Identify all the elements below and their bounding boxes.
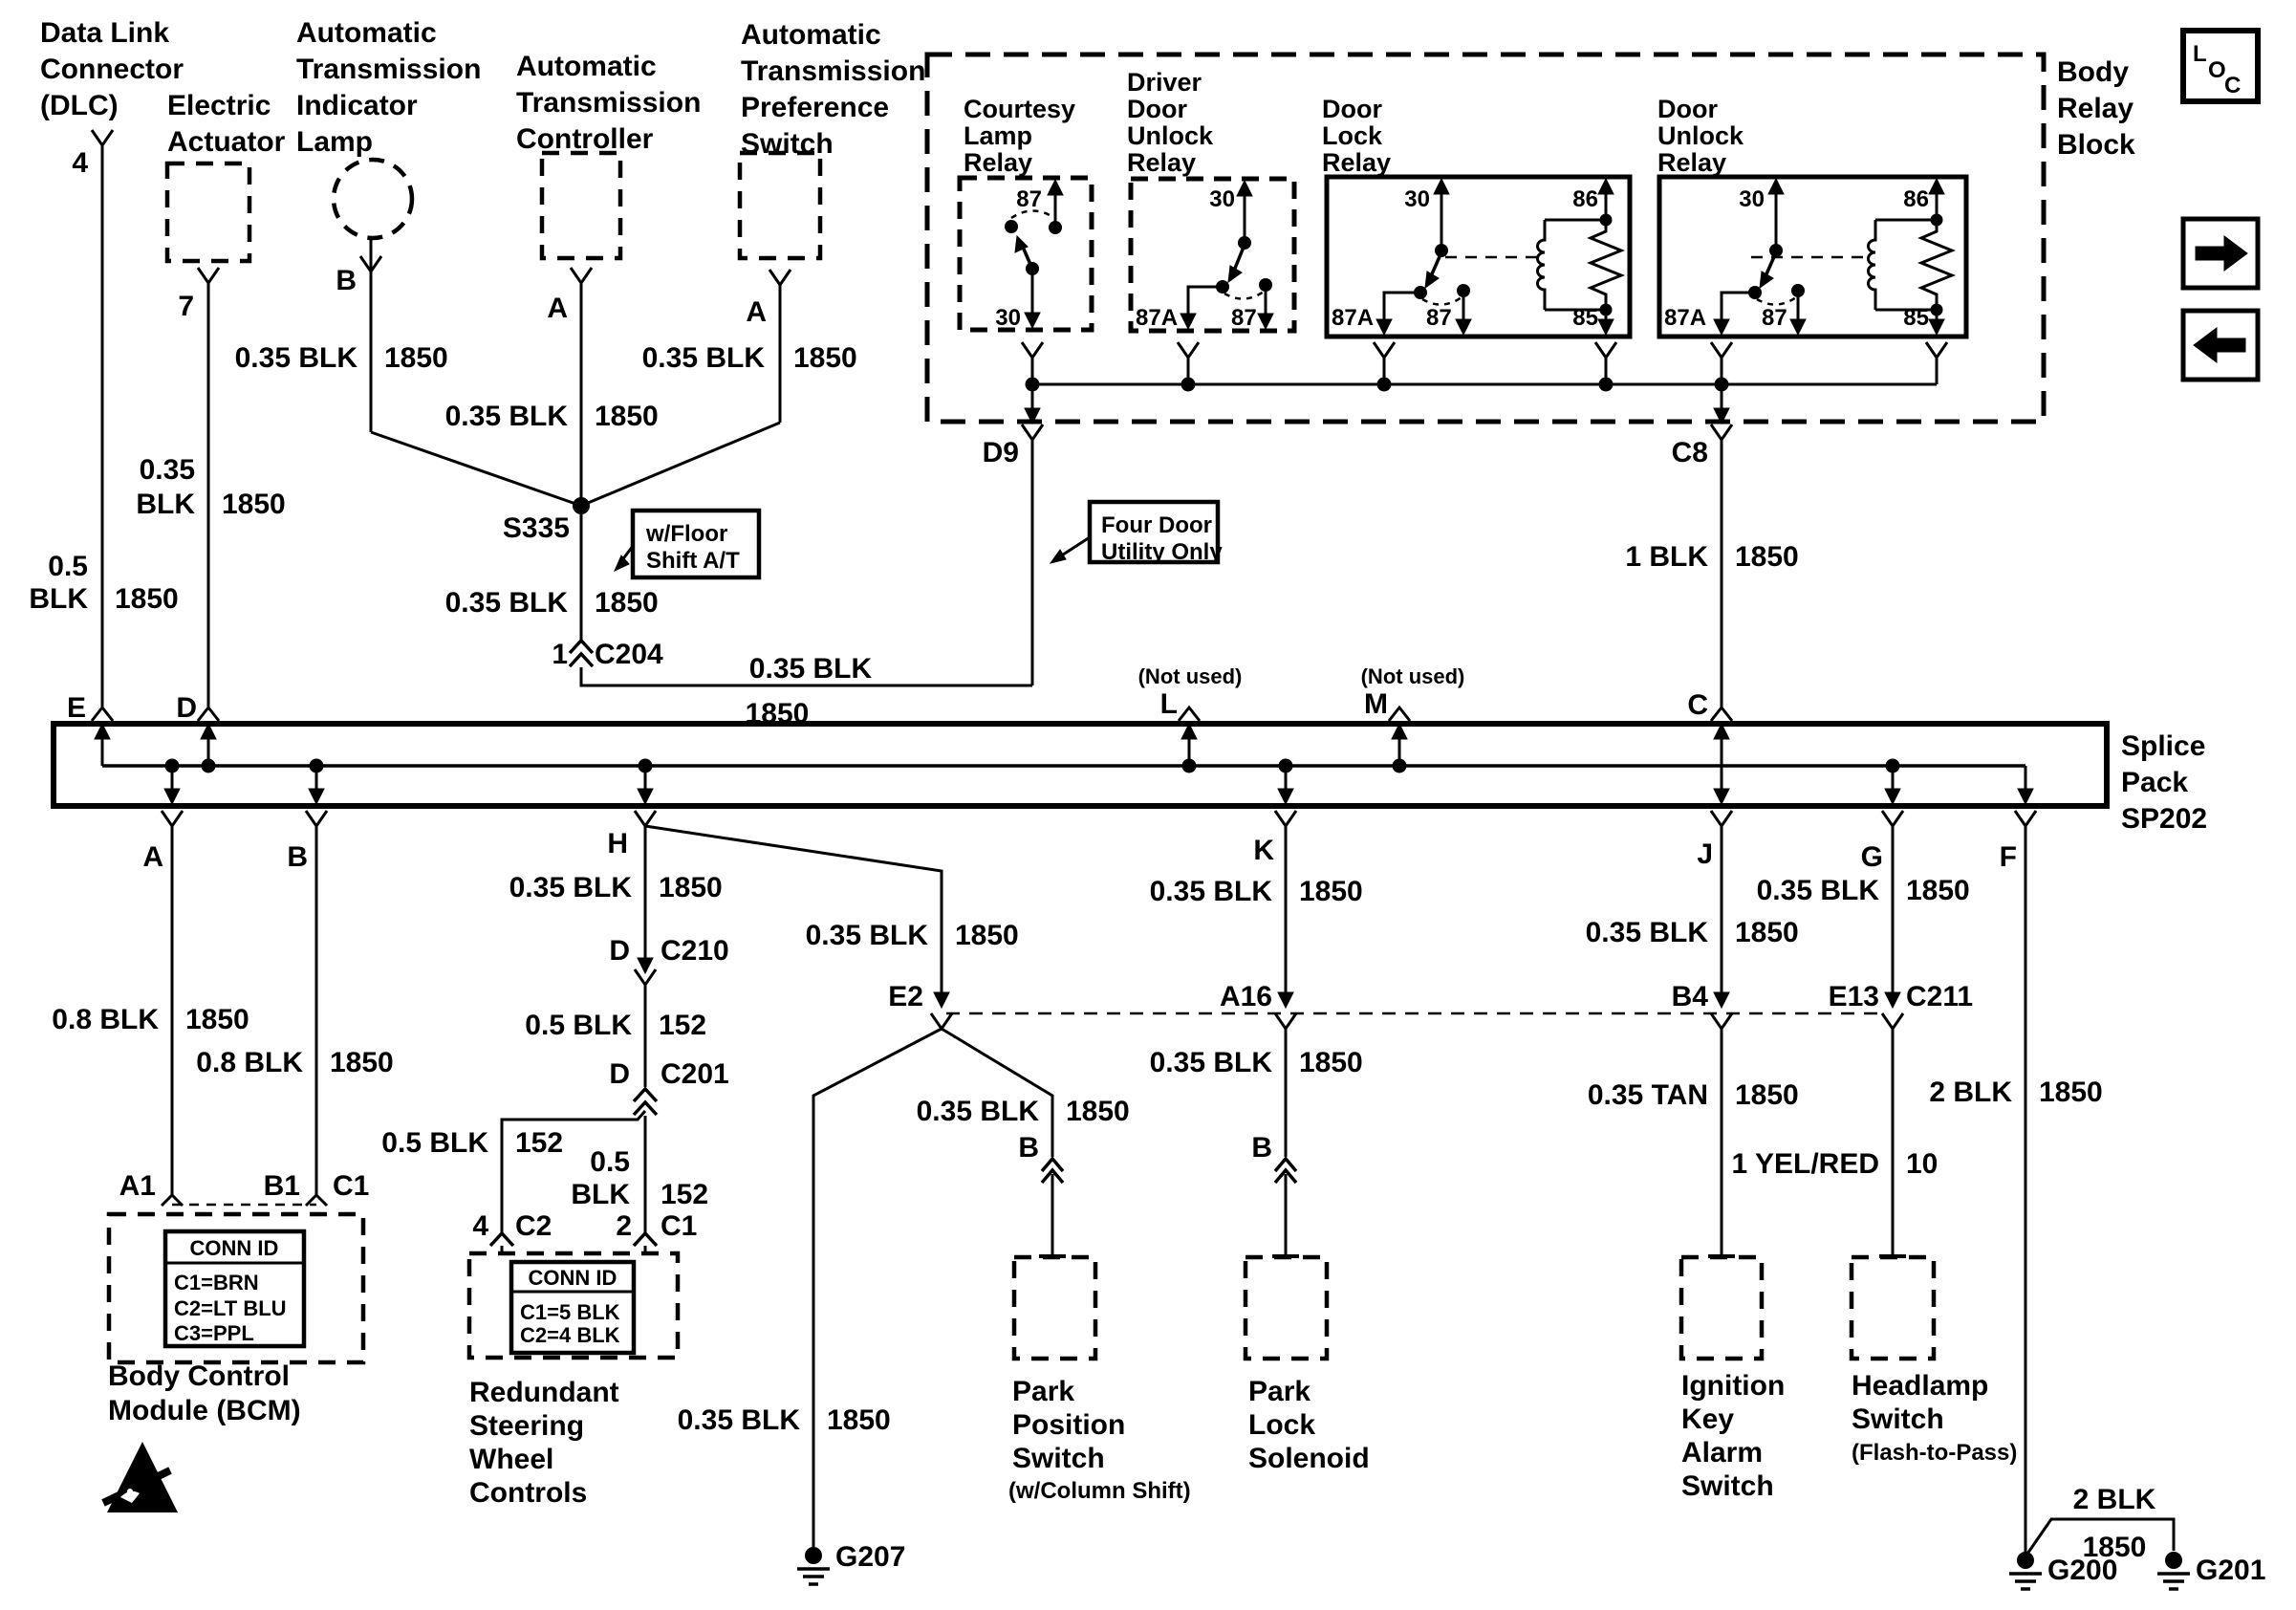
driver relay switch pivot dot [1238,236,1251,250]
svg-text:S335: S335 [503,512,570,544]
svg-text:Pack: Pack [2121,767,2188,798]
svg-text:Automatic: Automatic [296,17,437,49]
bus junction dot (door lock 87A) [1377,378,1392,392]
DLC pin 4 connector fork [92,130,113,145]
svg-text:w/Floor: w/Floor [645,521,727,547]
svg-text:1 YEL/RED: 1 YEL/RED [1732,1148,1880,1180]
Headlamp Switch dashed box [1852,1257,1934,1359]
door lock relay pin 87A contact dot [1414,286,1427,299]
svg-text:1850: 1850 [2039,1077,2103,1108]
svg-text:Park: Park [1248,1376,1310,1407]
svg-text:0.35: 0.35 [140,454,195,486]
svg-text:Lock: Lock [1322,121,1383,150]
svg-text:Indicator: Indicator [296,90,418,121]
connector C210 fork [635,969,656,985]
splice entry arrow E [101,738,104,766]
connector fork B1/C1 at BCM [306,1195,327,1206]
svg-text:C1: C1 [661,1210,697,1242]
svg-text:87A: 87A [1136,305,1178,331]
svg-text:0.35 BLK: 0.35 BLK [749,653,873,685]
svg-text:D: D [176,692,197,724]
svg-text:152: 152 [659,1010,706,1041]
svg-text:Steering: Steering [469,1410,584,1442]
svg-text:B: B [1018,1132,1039,1164]
wire into Park Position Switch [1051,1174,1054,1255]
svg-text:7: 7 [178,291,194,322]
courtesy relay drop fork to bus [1022,342,1043,358]
svg-text:Lock: Lock [1248,1409,1315,1441]
svg-text:C1: C1 [333,1170,369,1202]
door lock 87A drop fork to bus [1374,342,1395,358]
wire splice J down to B4 [1721,826,1723,1000]
svg-text:0.35 BLK: 0.35 BLK [917,1096,1040,1127]
svg-text:Controller: Controller [516,123,654,155]
connector A16 (arrow down) [1278,992,1293,1008]
svg-text:Key: Key [1681,1403,1734,1435]
splice S335 [573,497,590,514]
Door Unlock Relay box [1659,177,1966,337]
svg-text:(DLC): (DLC) [40,90,119,121]
door unlock relay switch pivot dot [1769,244,1783,257]
svg-text:0.35 BLK: 0.35 BLK [806,920,929,951]
svg-text:0.5 BLK: 0.5 BLK [525,1010,632,1041]
ground bus inside relay block [1032,383,1937,386]
svg-text:Body: Body [2057,56,2129,88]
svg-text:B1: B1 [264,1170,300,1202]
door lock relay 87A wire to bottom edge (arrow down) [1384,293,1420,331]
svg-text:E: E [67,692,86,724]
svg-text:C1=5 BLK: C1=5 BLK [520,1300,620,1324]
svg-text:Switch: Switch [1681,1470,1774,1502]
wire splice H down (RSWC branch) [644,826,647,966]
svg-text:C3=PPL: C3=PPL [174,1321,254,1345]
svg-text:87A: 87A [1332,305,1374,331]
Courtesy Lamp Relay dashed box [960,178,1092,330]
bus junction dot (door unlock 87A / C8) [1715,378,1729,392]
svg-text:C8: C8 [1672,437,1708,468]
arrow icon (right) [2183,219,2258,288]
svg-text:Relay: Relay [964,148,1032,177]
svg-text:Relay: Relay [1657,148,1726,177]
connector A16 fork [1275,1013,1296,1029]
svg-text:Lamp: Lamp [296,126,373,158]
door unlock relay dashed throw arc [1757,297,1796,305]
callout box: w/Floor Shift A/T [633,511,759,577]
arrow icon (left) [2183,311,2258,380]
svg-text:1 BLK: 1 BLK [1625,541,1708,573]
svg-text:O: O [2208,57,2226,83]
wire ATC pin A to splice S335 [580,283,583,506]
svg-text:30: 30 [995,305,1021,331]
svg-text:Controls: Controls [469,1477,587,1509]
svg-text:Preference: Preference [741,92,889,123]
svg-text:1850: 1850 [955,920,1019,951]
svg-text:85: 85 [1572,305,1598,331]
svg-text:Four Door: Four Door [1101,512,1212,538]
fork below splice at F [2015,811,2036,826]
door unlock relay dashed actuation line [1751,256,1870,259]
driver relay switch blade with arrowhead [1234,245,1245,271]
svg-text:0.8 BLK: 0.8 BLK [196,1047,303,1078]
door unlock relay pin 87 dot and arrow down [1791,284,1805,297]
door lock 85 drop fork to bus [1595,342,1616,358]
door lock relay dashed throw arc [1422,297,1462,305]
svg-text:1850: 1850 [1735,1079,1799,1111]
svg-text:0.35 BLK: 0.35 BLK [1586,917,1709,948]
svg-text:(Not used): (Not used) [1361,664,1465,688]
svg-text:Switch: Switch [1852,1403,1944,1435]
svg-text:Automatic: Automatic [516,51,657,82]
svg-text:0.35 BLK: 0.35 BLK [1150,876,1273,907]
svg-text:Electric: Electric [167,90,271,121]
connector C8 fork [1711,424,1732,440]
svg-text:Driver: Driver [1127,68,1202,97]
svg-text:Splice: Splice [2121,730,2205,762]
door unlock relay coil bottom bar [1875,309,1937,312]
svg-text:Transmission: Transmission [741,55,925,87]
svg-text:1850: 1850 [185,1004,249,1035]
wire C211 to headlamp switch [1892,1029,1895,1255]
svg-text:152: 152 [661,1179,708,1210]
connector E13 / C211 (arrow down) [1885,992,1900,1008]
svg-text:C2=4 BLK: C2=4 BLK [520,1323,620,1347]
svg-text:1850: 1850 [330,1047,394,1078]
svg-text:Position: Position [1012,1409,1125,1441]
svg-text:Unlock: Unlock [1657,121,1744,150]
courtesy relay pin 30 (arrow down) [1031,269,1034,325]
connector E2 fork [931,1013,952,1029]
svg-text:0.35 BLK: 0.35 BLK [445,401,569,432]
RSWC C2 pin 4 chevron [490,1233,513,1246]
connector C210 pin D (arrow down) [638,958,653,973]
svg-text:1850: 1850 [595,401,659,432]
svg-text:E2: E2 [888,981,923,1012]
fork at splice pack C entry [1711,707,1732,721]
connector fork L [1179,707,1200,721]
connector B chevrons (park position switch) [1042,1159,1063,1171]
door unlock relay pin 87A contact dot [1748,286,1762,299]
RSWC C1 pin 2 chevron [634,1233,657,1246]
in-line connector C204 pin 1 (chevrons) [570,641,593,653]
svg-text:C210: C210 [661,935,729,967]
svg-text:30: 30 [1404,186,1430,212]
Redundant Steering Wheel Controls dashed box [469,1253,678,1358]
connector C211 fork [1882,1013,1903,1029]
svg-text:Unlock: Unlock [1127,121,1214,150]
courtesy relay dashed throw arc [1011,211,1054,219]
splice exit arrow B [310,759,324,773]
svg-text:D: D [609,935,630,967]
lamp pin B fork [370,239,373,272]
connector D9 fork [1022,424,1043,440]
wire into Park Lock Solenoid [1285,1174,1288,1255]
door lock relay switch pivot dot [1435,244,1448,257]
splice pack internal bus [102,764,2025,768]
svg-text:Alarm: Alarm [1681,1437,1763,1469]
bus junction dot (door lock 85) [1599,378,1614,392]
svg-text:1850: 1850 [793,342,857,374]
courtesy relay switch pivot dot [1005,220,1018,233]
wire C210 to C201 [644,985,647,1087]
door unlock 87A drop fork to bus [1711,342,1732,358]
svg-text:Utility Only: Utility Only [1101,539,1223,565]
svg-text:Door: Door [1127,95,1187,123]
svg-text:87A: 87A [1664,305,1706,331]
svg-text:A16: A16 [1220,981,1272,1012]
svg-text:K: K [1253,835,1274,866]
wire DLC pin4 to splice pack E [101,145,104,707]
Park Lock Solenoid dashed box [1245,1257,1327,1359]
Body Relay Block outer dashed box [927,54,2044,422]
svg-text:0.35 BLK: 0.35 BLK [678,1404,801,1436]
svg-text:1850: 1850 [222,489,286,520]
door unlock relay pin 86 (arrow up) [1936,183,1939,220]
svg-text:0.35 BLK: 0.35 BLK [1757,875,1880,906]
svg-text:Transmission: Transmission [516,87,701,119]
svg-text:Switch: Switch [1012,1443,1105,1474]
splice exit arrow J [1721,766,1723,797]
svg-text:Courtesy: Courtesy [964,95,1075,123]
svg-text:0.5: 0.5 [48,551,88,582]
svg-text:85: 85 [1903,305,1929,331]
svg-text:4: 4 [472,1210,488,1242]
courtesy relay pin 87 contact dot [1049,221,1062,234]
Electric Actuator pin 7 fork [198,268,219,283]
wire lamp pin B to splice S335 [370,272,373,432]
svg-text:87: 87 [1016,186,1042,212]
wire C8 down to splice pack C [1721,440,1723,707]
branch wire to RSWC C2 pin 4 [502,1111,645,1233]
svg-text:C1=BRN: C1=BRN [174,1271,259,1295]
wire splice A to BCM A1 [171,826,174,1195]
svg-text:B: B [287,841,308,873]
svg-text:C2: C2 [515,1210,552,1242]
splice entry arrow D [202,759,216,773]
svg-text:Park: Park [1012,1376,1074,1407]
svg-text:1850: 1850 [595,587,659,619]
door lock relay dashed actuation line [1445,256,1537,259]
svg-text:G207: G207 [835,1541,905,1573]
svg-text:4: 4 [72,147,88,179]
svg-text:D: D [609,1058,630,1090]
svg-text:E13: E13 [1829,981,1879,1012]
svg-text:Relay: Relay [2057,93,2134,124]
wire D9 down to C204 horizontal run [1031,440,1034,685]
svg-text:1850: 1850 [384,342,448,374]
splice exit arrow K [1279,759,1293,773]
svg-text:Solenoid: Solenoid [1248,1443,1370,1474]
svg-text:(w/Column Shift): (w/Column Shift) [1008,1478,1191,1504]
bus junction dot (driver 87A) [1181,378,1196,392]
ground G200 [2017,1552,2034,1569]
fork below splice at G [1882,811,1903,826]
svg-text:H: H [607,828,628,859]
svg-text:0.5 BLK: 0.5 BLK [381,1127,488,1159]
connector B chevrons (park lock solenoid) [1275,1159,1296,1171]
svg-text:Block: Block [2057,129,2135,161]
driver relay dashed throw arc [1224,292,1264,299]
svg-text:0.35 BLK: 0.35 BLK [445,587,569,619]
door unlock relay coil (inductor) [1875,219,1937,222]
dashed in-line connector boundary [946,1012,1885,1015]
svg-text:152: 152 [515,1127,563,1159]
splice entry arrow M (not used) [1393,759,1407,773]
svg-text:SP202: SP202 [2121,803,2207,835]
svg-text:30: 30 [1209,186,1235,212]
svg-text:Wheel: Wheel [469,1444,553,1475]
fork below splice at B [306,811,327,826]
wire H diagonal to E2 [645,826,942,1000]
svg-text:1850: 1850 [1299,1047,1363,1078]
door unlock relay pin 30 (arrow up) [1775,183,1778,250]
wire D9: bus down through relay block edge [1031,384,1034,418]
Automatic Transmission Controller box [542,153,620,258]
svg-text:10: 10 [1906,1148,1938,1180]
Body Control Module dashed box [109,1214,363,1362]
fork below splice at A [162,811,183,826]
Park Position Switch dashed box [1014,1257,1095,1359]
wire Electric Actuator pin7 to splice pack D [207,283,210,707]
svg-text:Body Control: Body Control [108,1360,290,1392]
svg-text:87: 87 [1426,305,1452,331]
svg-text:Data Link: Data Link [40,17,169,49]
wire C201 down to RSWC C1 pin 2 [644,1116,647,1233]
svg-text:Door: Door [1657,95,1718,123]
svg-text:Ignition: Ignition [1681,1370,1785,1402]
callout arrow to wire [619,546,633,564]
connector fork M [1389,707,1410,721]
RSWC CONN ID table [511,1262,634,1353]
svg-text:CONN ID: CONN ID [190,1236,279,1260]
svg-text:C2=LT BLU: C2=LT BLU [174,1296,287,1320]
courtesy relay switch blade with arrowhead [1022,245,1032,269]
connector B4 (arrow down) [1714,992,1729,1008]
splice exit arrow A [165,759,180,773]
wire splice F down to ground G200 [2025,826,2027,1553]
driver relay 87A wire to bottom edge (arrow down) [1188,287,1223,325]
driver relay pin 30 (arrow up) [1244,185,1246,243]
door unlock relay switch blade with arrowhead [1765,252,1776,276]
svg-text:2 BLK: 2 BLK [1929,1077,2012,1108]
splice exit arrow G [1886,759,1900,773]
door unlock 85 drop fork to bus corner [1926,342,1947,358]
door unlock relay 87A wire to bottom edge (arrow down) [1722,293,1755,331]
wire preference switch pin A to splice S335 [779,285,782,423]
indicator lamp (dashed circle) [334,160,412,238]
Electric Actuator box [167,163,249,261]
door lock relay resistor [1591,220,1621,310]
Door Lock Relay box [1327,177,1630,337]
svg-text:0.35 BLK: 0.35 BLK [509,872,633,903]
fork at splice pack D entry [198,707,219,721]
svg-text:0.35 TAN: 0.35 TAN [1588,1079,1708,1111]
svg-text:0.8 BLK: 0.8 BLK [52,1004,159,1035]
svg-text:BLK: BLK [571,1179,630,1210]
Automatic Transmission Preference Switch box [740,153,820,258]
svg-text:87: 87 [1231,305,1257,331]
door lock relay pin 85 (arrow down) [1605,310,1608,331]
driver relay pin 87A contact dot [1216,280,1229,294]
svg-text:Transmission: Transmission [296,54,481,85]
preference switch pin A fork [769,270,791,285]
svg-text:0.5: 0.5 [590,1146,630,1178]
svg-text:1850: 1850 [1066,1096,1130,1127]
svg-text:Lamp: Lamp [964,121,1032,150]
svg-text:1850: 1850 [2083,1532,2147,1563]
fork below splice at H [635,811,656,826]
svg-text:B: B [336,265,357,296]
courtesy relay pin 87 (arrow up) [1054,184,1057,228]
svg-text:2: 2 [616,1210,632,1242]
callout arrow to D9 wire [1057,537,1090,558]
door lock relay switch blade with arrowhead [1431,252,1441,276]
svg-text:1850: 1850 [1299,876,1363,907]
splice entry arrow L (not used) [1182,759,1197,773]
courtesy relay pin 30 contact dot [1026,262,1039,275]
svg-text:Door: Door [1322,95,1382,123]
wire E2 split to G207 and Park Position Switch [813,1029,942,1547]
svg-text:0.35 BLK: 0.35 BLK [235,342,358,374]
fork at splice pack E entry [92,707,113,721]
wire A16 to park lock solenoid [1285,1029,1288,1157]
wire B4 to ignition key alarm switch [1721,1029,1723,1255]
svg-text:BLK: BLK [29,583,88,615]
svg-text:Connector: Connector [40,54,184,85]
bus junction dot (courtesy/D9) [1026,378,1040,392]
door lock relay pin 86 (arrow up) [1605,183,1608,220]
door lock relay pin 30 (arrow up) [1440,183,1443,250]
door lock relay coil (inductor) [1545,219,1606,222]
svg-text:A: A [142,841,163,873]
svg-text:(Flash-to-Pass): (Flash-to-Pass) [1852,1440,2017,1466]
svg-text:0.35 BLK: 0.35 BLK [1150,1047,1273,1078]
connector fork A1 at BCM [162,1195,183,1206]
ESD sensitivity symbol [107,1442,178,1512]
svg-text:C204: C204 [595,639,663,670]
svg-text:M: M [1364,688,1388,720]
fork below splice at J [1711,811,1732,826]
svg-text:C: C [2224,73,2241,98]
door unlock relay pin 85 (arrow down) [1936,310,1939,331]
svg-text:Relay: Relay [1127,148,1196,177]
svg-text:B4: B4 [1672,981,1709,1012]
svg-text:L: L [2193,41,2207,67]
Ignition Key Alarm Switch dashed box [1681,1257,1762,1359]
svg-text:J: J [1697,838,1713,870]
svg-text:1850: 1850 [1735,917,1799,948]
svg-text:A: A [746,296,767,328]
svg-text:Actuator: Actuator [167,126,286,158]
wire C8: bus down through relay block edge [1721,384,1723,418]
svg-text:C: C [1687,689,1708,721]
dashed connector row at BCM top [172,1204,316,1207]
svg-text:B: B [1251,1132,1272,1164]
svg-text:CONN ID: CONN ID [529,1266,617,1290]
callout box: Four Door Utility Only [1090,502,1218,562]
BCM CONN ID table [165,1231,304,1346]
door unlock relay resistor [1921,220,1952,310]
ATC pin A fork [571,268,592,283]
svg-text:86: 86 [1903,186,1929,212]
ground G201 [2165,1552,2182,1569]
Splice Pack SP202 box [54,724,2107,806]
splice entry arrow C [1721,738,1723,766]
svg-text:C201: C201 [661,1058,729,1090]
svg-text:Redundant: Redundant [469,1377,619,1408]
svg-text:L: L [1160,688,1178,720]
svg-text:C211: C211 [1906,981,1973,1012]
svg-text:Relay: Relay [1322,148,1391,177]
